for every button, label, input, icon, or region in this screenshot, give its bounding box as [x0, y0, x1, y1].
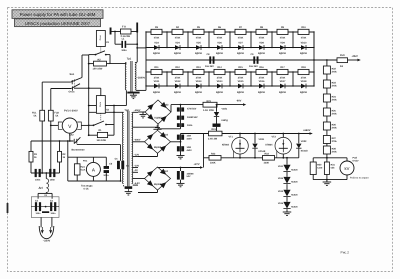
- wire mid bus y=60: [146, 59, 337, 61]
- svg-text:~5V: ~5V: [134, 169, 139, 172]
- VT1 gate lead: [233, 151, 235, 158]
- svg-text:0,5A: 0,5A: [81, 168, 86, 171]
- svg-text:270k: 270k: [332, 127, 338, 130]
- svg-text:R31: R31: [212, 128, 217, 131]
- wire K2 contact leads: [89, 124, 94, 126]
- bridge rectifier VD24: [145, 167, 171, 190]
- transistor VT1: [239, 133, 241, 135]
- svg-text:R10: R10: [301, 26, 306, 29]
- HV bus vertical x=137.2: [136, 23, 138, 63]
- wire row A cell tie: [208, 32, 210, 48]
- fuse FU1: [40, 110, 45, 121]
- svg-text:47M 50V: 47M 50V: [187, 108, 197, 111]
- svg-text:VD15: VD15: [238, 80, 245, 83]
- svg-text:100n: 100n: [36, 212, 42, 215]
- VT1 source lead: [239, 154, 241, 158]
- svg-text:R28: R28: [332, 147, 337, 150]
- svg-text:2A: 2A: [340, 65, 343, 68]
- capacitor C5: [120, 145, 122, 161]
- T1 shield bar: [127, 92, 139, 94]
- svg-text:R27: R27: [332, 137, 337, 140]
- wire right stub x=110: [109, 55, 111, 64]
- svg-text:КД210: КД210: [195, 52, 203, 55]
- wire left rail regulator: [204, 133, 209, 135]
- svg-text:~6,3V: ~6,3V: [134, 182, 141, 185]
- svg-text:R32: R32: [211, 152, 216, 155]
- filter ground bar: [42, 211, 49, 213]
- svg-text:R11: R11: [154, 66, 159, 69]
- indicator HL1: [216, 117, 218, 124]
- svg-text:КД210: КД210: [237, 91, 245, 94]
- ground zener stack: [286, 209, 288, 212]
- wire left rail x=88.7: [88, 55, 90, 136]
- svg-text:КД210: КД210: [216, 91, 224, 94]
- zener VD36: [283, 202, 290, 209]
- svg-text:+3kV: +3kV: [352, 55, 358, 58]
- svg-text:КД210: КД210: [237, 52, 245, 55]
- svg-text:Др1: Др1: [39, 186, 44, 189]
- wire SA2 down to ammeter loop: [67, 141, 69, 157]
- wire HL1 to R31 rail: [216, 127, 218, 131]
- wire row A cell tie: [292, 32, 294, 48]
- svg-text:450V: 450V: [187, 137, 193, 140]
- svg-text:КД210: КД210: [279, 91, 287, 94]
- svg-text:R24: R24: [332, 95, 337, 98]
- svg-text:R12: R12: [175, 66, 180, 69]
- svg-text:R14: R14: [217, 66, 222, 69]
- relay K2: [100, 88, 102, 95]
- svg-text:VD8: VD8: [259, 42, 264, 45]
- svg-text:КИПД: КИПД: [222, 119, 229, 122]
- svg-text:R31: R31: [331, 164, 336, 167]
- arrow +660V: [310, 132, 313, 135]
- svg-text:10n 2kV: 10n 2kV: [249, 65, 258, 68]
- wire regulator top rail: [222, 133, 310, 135]
- svg-text:270k: 270k: [332, 113, 338, 116]
- svg-text:10n 2kV: 10n 2kV: [205, 65, 214, 68]
- svg-text:VD18: VD18: [301, 80, 308, 83]
- diode VD21: [216, 105, 218, 112]
- wire FU1 down: [41, 121, 43, 173]
- svg-text:VD4: VD4: [175, 42, 180, 45]
- svg-text:VD34: VD34: [278, 177, 284, 180]
- wire stack top: [286, 157, 288, 159]
- svg-text:FU1: FU1: [32, 112, 37, 115]
- zener VD35: [283, 190, 290, 197]
- svg-text:КД210: КД210: [195, 91, 203, 94]
- svg-text:VD24: VD24: [162, 170, 169, 173]
- resistor R22: [323, 66, 330, 74]
- switch SA1 pole 1: [42, 81, 71, 83]
- diode VD32: [298, 133, 300, 135]
- wire HV bus to ladder: [137, 47, 146, 49]
- capacitor C1: [35, 169, 37, 177]
- svg-text:F 8: F 8: [122, 26, 126, 29]
- resistor R25: [323, 108, 330, 116]
- svg-text:КД210: КД210: [153, 52, 161, 55]
- wire row A diode line: [146, 47, 314, 49]
- svg-text:VD21: VD21: [222, 107, 228, 110]
- svg-text:VD5: VD5: [196, 42, 201, 45]
- svg-text:VD36: VD36: [278, 202, 284, 205]
- svg-text:Включение: Включение: [71, 149, 85, 152]
- wire ammeter bottom rail: [67, 157, 69, 181]
- switch SA1 link: [74, 79, 76, 87]
- svg-text:КД210: КД210: [258, 91, 266, 94]
- svg-text:PA1: PA1: [83, 160, 88, 163]
- svg-text:VD6: VD6: [217, 42, 222, 45]
- svg-text:~2500V: ~2500V: [137, 76, 146, 79]
- svg-text:470K: 470K: [196, 37, 202, 40]
- wire C5 down: [120, 169, 122, 181]
- T1 shield ground: [132, 94, 134, 96]
- svg-text:Откл: Откл: [69, 90, 75, 93]
- svg-text:Рис.2: Рис.2: [341, 251, 350, 255]
- ground above VD23: [157, 129, 159, 130]
- wire VD23 filter rail: [180, 134, 182, 156]
- node kV top: [326, 157, 328, 159]
- arrow +27V: [200, 166, 203, 169]
- svg-text:R13: R13: [196, 66, 201, 69]
- wire row B cell tie: [250, 72, 252, 86]
- wire VD22 minus to ground: [143, 111, 145, 113]
- border artifact mark: [7, 203, 9, 213]
- svg-text:470K: 470K: [154, 37, 160, 40]
- svg-text:270K: 270K: [154, 77, 160, 80]
- svg-text:КД210: КД210: [216, 52, 224, 55]
- wire VD23 ac2: [157, 153, 159, 156]
- svg-text:VD32: VD32: [301, 140, 307, 143]
- wire bridge VD22 return: [157, 124, 159, 129]
- svg-text:КС620: КС620: [291, 181, 298, 184]
- wire chain segment: [326, 130, 328, 136]
- mains filter box: [31, 197, 59, 218]
- wire divider chain: [326, 60, 328, 66]
- svg-text:VD23: VD23: [162, 133, 169, 136]
- svg-text:VD9: VD9: [280, 42, 285, 45]
- svg-text:КД210: КД210: [174, 91, 182, 94]
- capacitor C14: [177, 116, 180, 120]
- arrow +3kV: [357, 59, 360, 62]
- wire chain segment: [326, 74, 328, 80]
- T1 secondary top lead: [136, 61, 137, 63]
- wire stack segment: [286, 184, 288, 190]
- wire terminal to F8: [112, 31, 121, 33]
- svg-text:КД210: КД210: [174, 52, 182, 55]
- wire cap row: [30, 162, 32, 173]
- wire FU9 to output: [348, 59, 358, 61]
- svg-text:100n: 100n: [51, 212, 57, 215]
- wire row A resistor line: [146, 31, 314, 33]
- svg-text:270k: 270k: [332, 85, 338, 88]
- svg-text:SA1: SA1: [70, 73, 75, 76]
- svg-text:Power supply for PA with tube: Power supply for PA with tube GU-46M: [20, 12, 96, 17]
- wire K1 contact right: [106, 54, 110, 56]
- wire R21 to -90V arrow: [217, 104, 243, 106]
- svg-text:+660V: +660V: [303, 129, 311, 132]
- svg-text:270K: 270K: [301, 77, 307, 80]
- svg-text:100n: 100n: [187, 124, 193, 127]
- diode VD31: [254, 133, 256, 135]
- wire row B cell tie: [229, 72, 231, 86]
- svg-text:1.1K 10W: 1.1K 10W: [203, 109, 215, 112]
- switch contact K1.1: [95, 54, 97, 56]
- svg-text:VD10: VD10: [301, 42, 308, 45]
- wire VD24 ac2: [157, 190, 159, 193]
- svg-text:10M: 10M: [187, 135, 192, 138]
- svg-text:-90V: -90V: [236, 100, 242, 103]
- fuse FU2: [48, 110, 53, 121]
- svg-text:470K: 470K: [175, 37, 181, 40]
- wire VD23 output: [171, 141, 181, 143]
- svg-text:R22: R22: [332, 67, 337, 70]
- wire chain segment: [326, 88, 328, 94]
- svg-text:0-5kV: 0-5kV: [353, 160, 360, 163]
- bridge rectifier VD23: [145, 130, 171, 153]
- node LED branch: [216, 104, 218, 106]
- wire mains L1 vertical: [41, 82, 43, 110]
- wire VD22 ac2: [157, 124, 159, 127]
- wire T2 to VD23 ac1: [138, 141, 145, 143]
- svg-text:100n: 100n: [50, 179, 56, 182]
- wire row A cell tie: [313, 32, 315, 48]
- resistor R28: [323, 146, 330, 154]
- wire row A cell tie: [250, 32, 252, 48]
- svg-text:~12V: ~12V: [134, 153, 140, 156]
- wire SA1 up lead: [81, 55, 83, 78]
- title block line 1: [12, 10, 103, 19]
- mains plug: [39, 226, 54, 239]
- svg-text:100n: 100n: [121, 49, 127, 52]
- wire SA2 right: [77, 144, 121, 146]
- svg-text:R17: R17: [280, 66, 285, 69]
- wire ladder left rail: [145, 32, 147, 90]
- svg-text:100M 50V: 100M 50V: [187, 116, 198, 119]
- node left rail of K1 group: [88, 63, 90, 65]
- svg-text:PV1 0-300V: PV1 0-300V: [64, 110, 78, 113]
- wire filter bus: [31, 206, 59, 208]
- wire row B resistor line: [146, 71, 314, 73]
- svg-text:270K: 270K: [280, 77, 286, 80]
- VT2 source lead: [282, 154, 284, 158]
- svg-text:5A: 5A: [34, 115, 37, 118]
- svg-text:VT2: VT2: [272, 135, 277, 138]
- svg-text:R26: R26: [332, 123, 337, 126]
- svg-text:КД210: КД210: [153, 91, 161, 94]
- wire chain segment: [326, 102, 328, 108]
- wire PV1 bottom: [69, 133, 71, 141]
- svg-text:270k: 270k: [332, 99, 338, 102]
- svg-text:+27V: +27V: [194, 163, 200, 166]
- svg-text:КД210: КД210: [258, 52, 266, 55]
- title block line 2: [15, 19, 101, 27]
- svg-text:Реле: Реле: [99, 34, 102, 40]
- svg-text:2.4K 2W: 2.4K 2W: [208, 137, 218, 140]
- capacitor C14a: [177, 123, 180, 127]
- svg-text:VD12: VD12: [175, 80, 182, 83]
- wire T2 to VD24 ac1: [138, 178, 145, 180]
- wire kV top rail: [313, 157, 347, 159]
- wire kV bottom rail: [313, 179, 347, 181]
- wire down from F8 node: [114, 32, 116, 45]
- svg-text:Реле: Реле: [99, 101, 102, 107]
- svg-text:Работа на экран: Работа на экран: [350, 176, 369, 179]
- svg-text:~10V: ~10V: [134, 164, 140, 167]
- switch contact K2.1: [93, 124, 95, 126]
- svg-text:VD16: VD16: [259, 80, 266, 83]
- T2 primary bottom lead: [123, 185, 125, 186]
- svg-text:КД210: КД210: [279, 52, 287, 55]
- node chain top: [326, 59, 328, 61]
- svg-text:VD7: VD7: [238, 42, 243, 45]
- resistor R26: [323, 122, 330, 130]
- svg-text:5A: 5A: [55, 115, 58, 118]
- svg-text:КЦ405: КЦ405: [154, 117, 162, 120]
- VT2 gate lead: [276, 151, 278, 158]
- svg-text:270K: 270K: [238, 77, 244, 80]
- svg-text:Ток анода: Ток анода: [81, 184, 93, 187]
- T1 secondary bottom lead: [136, 89, 146, 91]
- wire row B cell tie: [292, 72, 294, 86]
- T2 secondary taps: [133, 111, 138, 113]
- svg-text:470K: 470K: [301, 37, 307, 40]
- dashed link K2: [100, 113, 102, 120]
- svg-text:270k: 270k: [332, 71, 338, 74]
- dashed link relay K1 to contact: [100, 47, 102, 53]
- wire F8 to HV bus: [131, 31, 137, 33]
- capacitor C2: [49, 169, 51, 177]
- svg-text:КС620: КС620: [291, 206, 298, 209]
- zener VD34: [283, 177, 290, 184]
- terminal bar: [110, 28, 112, 35]
- svg-text:R33: R33: [265, 152, 270, 155]
- svg-text:КД210: КД210: [300, 52, 308, 55]
- svg-text:PU2: PU2: [353, 156, 358, 159]
- wire row B cell tie: [145, 72, 147, 86]
- wire R2 to transformer T1 primary: [110, 63, 126, 65]
- transistor VT2: [282, 133, 284, 135]
- svg-text:100n: 100n: [35, 179, 41, 182]
- svg-text:270K: 270K: [196, 77, 202, 80]
- svg-text:50V: 50V: [187, 175, 192, 178]
- wire ammeter top rail: [68, 156, 107, 158]
- svg-text:КП904: КП904: [266, 143, 274, 146]
- capacitor C15: [177, 135, 180, 140]
- svg-text:270K: 270K: [259, 77, 265, 80]
- wire row B cell tie: [166, 72, 168, 86]
- svg-text:R16: R16: [259, 66, 264, 69]
- wire VD23 to regulator rail: [181, 133, 209, 135]
- meter PU2 kV: [346, 158, 348, 161]
- svg-text:КП904: КП904: [222, 143, 230, 146]
- wire VD24 output +27V: [157, 166, 159, 169]
- switch SA1 pole 2: [51, 88, 71, 90]
- svg-text:R25: R25: [332, 109, 337, 112]
- svg-text:VD3: VD3: [154, 42, 159, 45]
- resistor R24: [323, 94, 330, 102]
- resistor R23: [323, 80, 330, 88]
- T2 shield bar: [125, 186, 133, 189]
- svg-text:VD33: VD33: [278, 165, 284, 168]
- wire row B cell tie: [208, 72, 210, 86]
- wire row A cell tie: [187, 32, 189, 48]
- wire VD22 output up: [170, 105, 172, 112]
- svg-text:SA2: SA2: [69, 133, 74, 136]
- resistor R27: [323, 136, 330, 144]
- svg-text:FU2: FU2: [54, 112, 59, 115]
- svg-text:R18: R18: [301, 66, 306, 69]
- wire K2 top rail: [89, 105, 97, 107]
- relay K1: [96, 31, 105, 47]
- wire FU2 down: [50, 121, 52, 173]
- svg-text:1000M: 1000M: [187, 172, 194, 175]
- wire row B cell tie: [313, 72, 315, 86]
- svg-text:470K: 470K: [217, 37, 223, 40]
- capacitor C18: [180, 167, 182, 169]
- svg-text:5.1M: 5.1M: [317, 167, 322, 170]
- wire chain to kV node: [326, 154, 328, 158]
- capacitor C13: [180, 105, 182, 123]
- wire regulator bottom rail: [204, 157, 210, 159]
- svg-text:КС620: КС620: [291, 194, 298, 197]
- svg-text:470K: 470K: [238, 37, 244, 40]
- svg-text:КС518: КС518: [301, 149, 308, 152]
- resistor R2 left: [59, 141, 61, 151]
- svg-text:UR5CX production UKRAINE 2007: UR5CX production UKRAINE 2007: [25, 21, 91, 26]
- svg-text:100K: 100K: [264, 162, 270, 165]
- ground kV meter: [326, 180, 328, 182]
- svg-text:~220V: ~220V: [43, 240, 51, 243]
- wire row B diode line: [146, 85, 314, 87]
- svg-text:Тр1: Тр1: [127, 57, 132, 60]
- zener VD33: [283, 165, 290, 172]
- svg-text:КС620: КС620: [291, 169, 298, 172]
- wire right rail K2: [113, 106, 115, 136]
- svg-text:100 10W: 100 10W: [97, 139, 107, 142]
- svg-text:R23: R23: [332, 81, 337, 84]
- bridge rectifier VD22: [145, 100, 171, 124]
- svg-text:100K: 100K: [210, 162, 216, 165]
- resistor R1 left: [30, 141, 32, 151]
- svg-text:270K: 270K: [217, 77, 223, 80]
- wire stack segment: [286, 172, 288, 177]
- svg-text:VD22: VD22: [163, 103, 170, 106]
- svg-text:КД210: КД210: [300, 91, 308, 94]
- svg-text:270k: 270k: [332, 140, 338, 143]
- node T2 primary top: [113, 111, 115, 113]
- svg-text:270k: 270k: [332, 151, 338, 154]
- wire row A cell tie: [229, 32, 231, 48]
- wire row B cell tie: [271, 72, 273, 86]
- wire K1 contact left: [89, 54, 96, 56]
- resistor R31: [326, 158, 328, 162]
- wire row A cell tie: [145, 32, 147, 48]
- svg-text:VD13: VD13: [196, 80, 203, 83]
- svg-text:КЦ402: КЦ402: [154, 183, 162, 186]
- svg-text:VD35: VD35: [278, 190, 284, 193]
- wire chain segment: [326, 116, 328, 122]
- svg-text:R15: R15: [238, 66, 243, 69]
- svg-text:VD31: VD31: [259, 138, 265, 141]
- wire plug neck: [40, 217, 42, 227]
- arrow -90V output: [243, 103, 246, 106]
- svg-text:VD14: VD14: [217, 80, 224, 83]
- node mid bus right: [313, 59, 315, 61]
- wire row B cell tie: [187, 72, 189, 86]
- T2 primary top lead: [89, 111, 124, 113]
- capacitor C6: [105, 157, 107, 166]
- svg-text:470K: 470K: [259, 37, 265, 40]
